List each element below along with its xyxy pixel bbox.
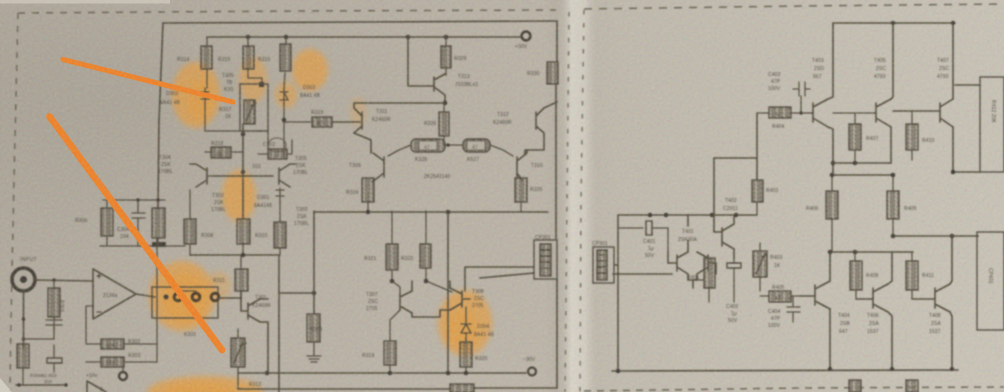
wire column x314 [313,211,315,314]
node tail bus mid [446,210,451,215]
wire: left page solid frame left edge down to R305 [158,23,163,208]
node R401 rail [710,213,715,218]
node bl b [64,383,68,387]
wire T307 T308 coupling [412,281,450,317]
resistor bottom right page b [906,380,918,392]
highlighter wash I T311 left faint [350,97,366,127]
transistor T406 [856,284,888,312]
node y172 [951,170,956,175]
highlighter wash G core [165,382,235,392]
wire jack ground column [23,290,25,348]
wire T401b gate right [613,263,716,274]
wire T401a drain up [687,215,689,252]
wire cascode bus [354,102,444,104]
transistor T308 [450,288,470,310]
wire T402 base [714,158,722,232]
capacitor C302 [254,131,292,159]
wire bus y252 [830,251,913,253]
wire mid bus y246 [100,245,185,247]
node R406 top [830,173,835,178]
wire center column upper [242,124,244,172]
wire T405 collector [891,23,893,99]
node on rail at R329 [444,35,449,40]
wire main left column right page [617,215,619,371]
resistor R324 [362,178,374,212]
junction bar [152,242,166,247]
transistor T312 [536,102,557,133]
wire T407 base row [893,110,940,112]
resistor R308 [184,190,196,255]
wire pill to T309 base [388,145,411,156]
highlighter stroke 2 [50,117,223,351]
wire T312 source down [525,133,544,155]
right page dashed border bottom edge [584,387,1004,391]
node junction square [259,82,264,87]
wire T408 collector [950,236,952,284]
resistor R405 47 [760,291,800,302]
wire bottom bus y389 [238,388,557,389]
wire center column to R309 [242,172,244,219]
wire T407 emitter [952,127,954,172]
relay contact a [174,293,182,301]
resistor R321 [386,211,398,281]
module box CP401 [977,232,1004,330]
transistor T407 [940,99,953,127]
ground R323 [307,356,321,362]
capacitor C300 electrolytic [47,345,62,372]
node opamp out [164,295,169,300]
resistor R404 47 [757,107,811,118]
right page dashed border left edge [580,10,584,392]
transistor T309 [372,153,384,182]
wire R321 to T307 base [392,281,400,294]
highlighter wash B2 D303 lower [275,82,297,108]
resistor R303 [101,357,124,367]
trimmer R403 [753,243,767,291]
resistor R322 [420,211,452,292]
trimmer R317 [244,100,256,124]
highlighter wash A core [187,80,213,120]
resistor R305 [152,200,165,244]
wire opamp inv input [86,306,101,344]
resistor R319 47 [312,117,332,127]
resistor R314 [201,37,212,88]
node on rail at T313 branch [406,35,411,40]
diode D303 [280,88,288,104]
wire emitter bus y175 [833,174,893,176]
wire R407 top link [833,112,874,114]
opamp U301b bottom partial [87,381,106,392]
wire bottom left bus [16,384,66,386]
wire R412 top link [955,84,980,86]
node jack gnd b [22,337,26,341]
terminal ring bottom [119,372,127,380]
wire T405 emitter [890,127,892,163]
resistor R318 1K [205,147,243,158]
wire x757 [756,113,758,180]
wire rail branch to T313 base [408,37,434,86]
trimmer loop box [240,84,268,131]
node T313 emitter [443,101,448,106]
wire T403 emitter [828,127,833,175]
wire frame lower right [556,279,558,388]
resistor R315 [243,37,262,84]
wire T308 collector to CP301 [465,267,534,278]
bottom left page corner light wedge [0,378,12,392]
node T401a gate rail [664,213,669,218]
resistor R319b [384,341,396,373]
relay contact c [211,293,219,301]
highlighter wash A R314 area [172,62,220,128]
wire T404 collector [829,252,831,281]
transistor T404 [811,281,830,309]
highlighter wash B3 trimmer top area [239,57,267,103]
resistor bottom right page a [849,380,861,392]
wire: left page solid frame top edge [163,21,557,23]
relay contact b [192,293,200,301]
resistor R410 [906,111,918,160]
wire T406 emitter [888,312,892,369]
node row a [136,198,140,202]
diode D302 [201,88,209,103]
node bus T404 [828,367,832,371]
highlighter stroke 1 [63,60,233,103]
node R409 top [891,173,896,178]
left page dashed border top edge [18,10,556,13]
page gap light band [556,0,596,392]
wire R319 to T311 [332,121,360,123]
node jack gnd a [22,317,26,321]
node tail bus R324 [366,210,371,215]
capacitor C402 [727,258,741,302]
diode D304 [461,307,471,342]
wire T407 collector [952,23,954,99]
transistor T310 [517,153,527,180]
node x314 [312,291,317,296]
capacitor C401 [618,221,668,252]
wire relay to R311 [218,291,241,298]
node bus R319b [388,371,393,376]
resistor R409 [887,175,899,236]
node t402 [734,213,739,218]
wire top row link [103,199,165,201]
node lower bus [241,253,246,258]
wire from D302 down [205,103,240,131]
wire T401 sources [688,280,697,288]
resistor R411 [906,252,918,299]
node x268 bus [265,371,270,376]
wire bottom bus right page [612,370,958,371]
resistor R310 [274,197,286,255]
node diff pair [241,170,245,174]
resistor R301 [48,280,60,331]
wire T310 collector [526,150,528,153]
node center top [241,132,246,137]
node c401 [648,213,653,218]
transistor T301 [241,291,260,322]
wire T406 collector [888,252,892,284]
wire tail bus y212 [314,211,548,213]
node y252 a [828,250,833,255]
node C403 R404 [799,111,803,115]
capacitor C304 [132,200,145,246]
wire mid jog [714,157,757,159]
node pill row [446,143,450,147]
node bus R320 [464,371,469,376]
relay K301 box [152,287,218,318]
wire lower bus y255 [190,255,314,392]
spine shadow left page edge [544,0,570,392]
diode D301 symbol [276,188,284,197]
module box R412 [980,77,1004,172]
highlighter wash E relay area [149,261,215,331]
wire CP301 to node [614,264,618,266]
resistor R329 [441,37,451,75]
node R301 top [52,278,56,282]
wire fb column lower [156,344,158,362]
resistor R328 vertical [439,103,449,145]
wire pill to T310 base [490,145,513,156]
jfet T304 [190,164,243,187]
wire T301 to x268 [260,299,268,373]
resistor R313 bottom [450,384,474,392]
highlighter wash G bottom [147,376,263,392]
transistor T402 [722,215,734,258]
node on rail at R316 [284,35,289,40]
wire D303 to R319 node [284,104,312,158]
resistor R323 [307,314,320,356]
left page dashed border right edge [565,12,569,392]
node D303 [282,118,287,123]
node x448 bus [446,371,451,376]
left page dashed border left edge [10,13,18,392]
transistor T307 [400,291,412,313]
wire lower mid bus y373 [239,372,526,374]
wire T408 emitter [950,312,952,369]
node R322 bottom [424,279,429,284]
connector CP301 right page [593,247,614,283]
wire: +30V supply rail [207,36,521,38]
resistor R309 [237,219,250,255]
wire T404 emitter [829,309,831,369]
wire T307 collector top [464,276,466,291]
node bus left [616,369,621,374]
wire jack to opamp [34,280,93,281]
transistor T405 [874,99,891,127]
node y252 b [853,250,858,255]
highlighter wash E2 R311 side [207,271,231,301]
resistor R302 [101,339,124,349]
wire to module1 [953,171,980,173]
resistor R330 on frame edge [547,62,558,84]
highlighter wash F core [447,310,477,350]
highlighter wash B D303 area [292,49,328,91]
wire module2 link [977,235,979,237]
jfet T401b [697,252,716,280]
node on rail at R315 [246,35,251,40]
resistor R306 [101,200,113,246]
resistor R406 [826,175,838,252]
node rail T405 [891,21,895,25]
highlighter wash E core [162,273,208,323]
jfet T401a [668,252,688,280]
wire opamp out to relay [136,294,155,297]
node T403 emitter [831,161,836,166]
wire T307 emitter to R319b [390,310,400,341]
resistor R402 [752,180,763,215]
wire R303 links [86,362,157,372]
resistor R328 47 pill [411,139,445,152]
resistor R316 [280,37,291,88]
highlighter wash D T303 area [222,170,256,222]
wire top rail right page input [618,214,757,216]
node bl a [17,383,21,387]
wire pill row [445,144,463,146]
transistor T311 [354,103,362,133]
wire T403 collector [828,23,833,99]
node bus T408 [950,367,954,371]
wire center column x448 [447,212,449,373]
capacitor C301 [24,317,62,339]
transistor T408 [912,284,950,312]
resistor R325 [515,178,527,212]
wire R405 to output stage [800,295,811,297]
wire R302 to fb column [124,238,157,344]
resistor R320 [460,339,472,373]
resistor R300 [17,344,29,385]
transistor T403 [811,99,828,127]
node R321 bottom [390,279,395,284]
terminal -30V [528,368,536,376]
resistor R408 [850,252,862,299]
right page dashed border top edge [584,4,1004,9]
wire top rail output [833,22,955,24]
input jack [12,268,35,291]
opamp U301 [93,269,136,319]
wire T403 emitter bus [833,162,891,164]
relay contact bracket [178,290,196,292]
highlighter wash F T308 area [438,290,492,356]
jfet T305 [243,164,296,187]
node R407 bottom [853,161,858,166]
wire bus y236 [893,235,978,237]
resistor R401 [693,258,715,302]
resistor R327 47 pill [463,139,490,152]
connector CP301 left page [534,240,557,279]
wire T311 source down [354,133,371,153]
node bus T406 [890,367,894,371]
transistor T313 [434,74,446,102]
top edge light strip [0,0,170,4]
node y236 [891,234,896,239]
capacitor C403 [793,82,810,113]
capacitor C404 [787,296,800,322]
node y236 b [950,234,955,239]
node row b [156,198,160,202]
resistor R407 [849,113,861,163]
wire: left page solid frame right edge [556,21,557,240]
node rail T407 [951,21,955,25]
trimmer R312 [231,329,246,389]
terminal +30V [522,32,531,41]
resistor R311 [235,255,248,291]
